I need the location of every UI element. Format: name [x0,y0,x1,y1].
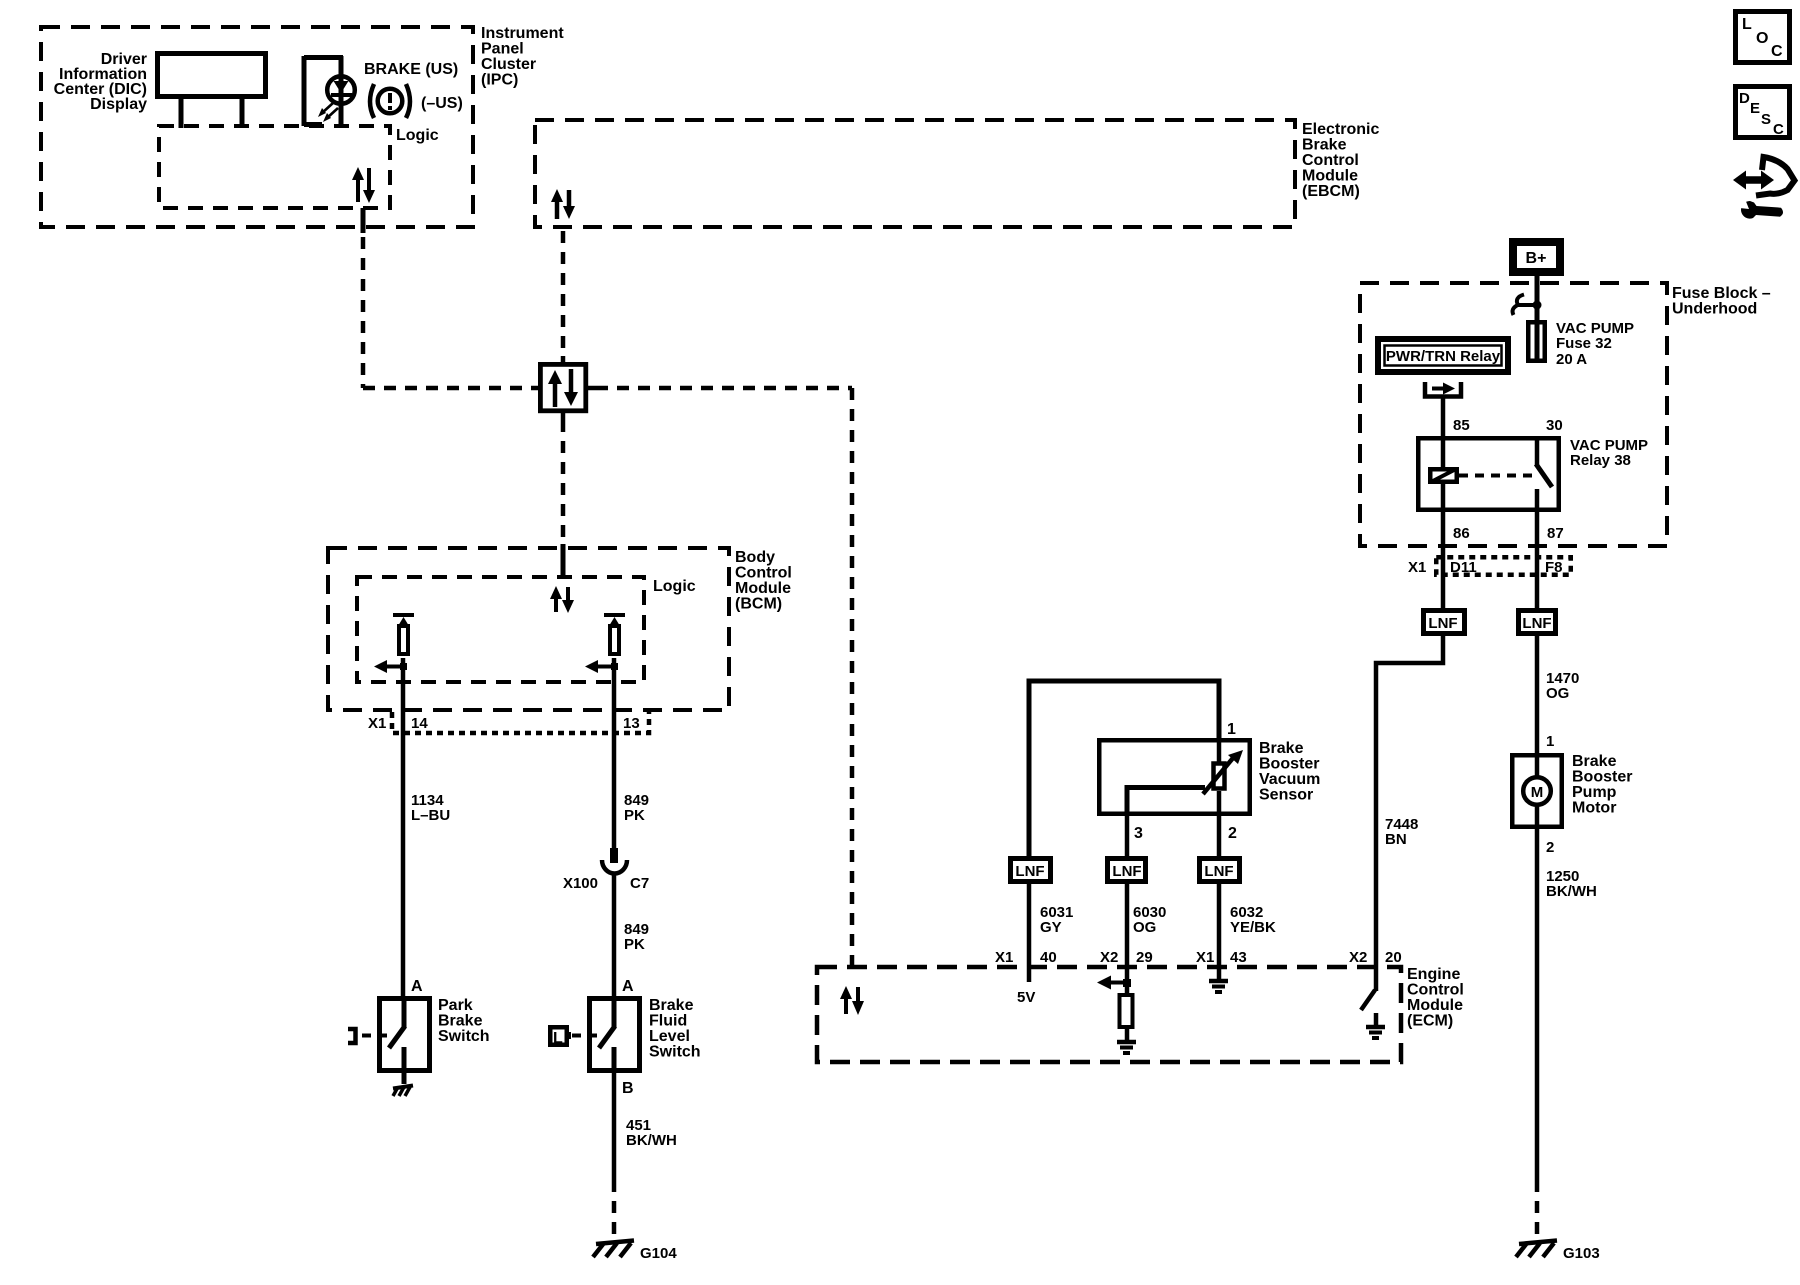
svg-text:S: S [1761,111,1771,128]
svg-text:Park: Park [438,997,473,1014]
module box: Instrument Panel Cluster (IPC) [41,25,564,227]
svg-text:20: 20 [1385,949,1402,966]
svg-text:Electronic: Electronic [1302,121,1379,138]
svg-text:G104: G104 [640,1245,677,1262]
wire: dashed ground lead to G104 [612,1180,617,1241]
svg-text:X2: X2 [1100,949,1118,966]
svg-text:PK: PK [624,807,645,824]
park brake switch S1 [377,978,490,1084]
svg-text:G103: G103 [1563,1245,1600,1262]
svg-text:86: 86 [1453,525,1470,542]
svg-text:Booster: Booster [1259,756,1319,773]
svg-text:YE/BK: YE/BK [1230,919,1276,936]
wire: pin 87 to connector [1535,512,1540,608]
wire label 1134 L-BU [411,792,450,824]
wire: 7448 BN to ECM pin 20 [1376,636,1443,967]
svg-text:1: 1 [1227,721,1236,738]
wire label 1470 OG [1546,670,1579,702]
splice junction: serial data link box [531,356,596,420]
actuator dashed link (park brake) [362,1034,374,1038]
svg-text:OG: OG [1133,919,1156,936]
svg-text:B+: B+ [1526,250,1547,267]
svg-text:Relay 38: Relay 38 [1570,452,1631,469]
wire: coil feed to pin 85 [1441,396,1446,436]
svg-text:29: 29 [1136,949,1153,966]
svg-text:Brake: Brake [1302,137,1347,154]
logic box inside IPC [159,126,439,208]
svg-text:OG: OG [1546,685,1569,702]
svg-text:E: E [1750,100,1760,117]
wire: DIC display right leg [240,99,245,128]
svg-text:A: A [622,978,634,995]
svg-text:Fuse 32: Fuse 32 [1556,335,1612,352]
svg-text:X100: X100 [563,875,598,892]
svg-text:LNF: LNF [1112,863,1141,880]
wire: dashed ground lead to G103 [1535,1180,1540,1241]
relay coil feed bracket [1425,382,1461,397]
svg-text:Pump: Pump [1572,784,1617,801]
svg-text:Module: Module [1407,997,1463,1014]
svg-text:3: 3 [1134,825,1143,842]
relay name box: PWR/TRN Relay [1378,339,1508,372]
svg-text:Cluster: Cluster [481,56,536,73]
svg-text:BK/WH: BK/WH [626,1132,677,1149]
brake warning indicator symbol ((!)) [370,84,410,118]
svg-text:C: C [1771,43,1783,60]
svg-text:43: 43 [1230,949,1247,966]
svg-text:X1: X1 [1408,559,1426,576]
5V source label in ECM [1017,967,1035,1006]
splice pack LNF (6032) [1200,859,1240,882]
svg-text:C: C [1773,121,1784,138]
svg-text:M: M [1531,784,1544,801]
wire: 1250 BK/WH to ground [1535,829,1540,1180]
svg-text:D: D [1739,90,1750,107]
ground G104 [593,1241,677,1263]
svg-text:2: 2 [1546,839,1554,856]
wire label 1250 BK/WH [1546,868,1597,900]
svg-text:LNF: LNF [1522,615,1551,632]
BCM driver output right (pull-up to fluid level input) [604,615,625,682]
fuse F32: VAC PUMP Fuse 32 20A [1528,320,1634,368]
fluid level sensor symbol [L] [550,1027,571,1047]
svg-text:(–US): (–US) [421,95,463,112]
svg-text:GY: GY [1040,919,1062,936]
svg-text:X1: X1 [1196,949,1214,966]
svg-text:2: 2 [1228,825,1237,842]
wire: pin3 to LNF [1125,816,1130,856]
ground G103 [1516,1241,1600,1263]
wire: 6030 OG to ECM [1125,884,1130,967]
svg-text:A: A [411,978,423,995]
svg-text:X1: X1 [368,715,386,732]
svg-text:PK: PK [624,936,645,953]
svg-text:Underhood: Underhood [1672,301,1757,318]
svg-text:F8: F8 [1545,559,1563,576]
svg-text:PWR/TRN Relay: PWR/TRN Relay [1386,348,1501,365]
svg-text:(ECM): (ECM) [1407,1013,1453,1030]
svg-text:(EBCM): (EBCM) [1302,183,1360,200]
svg-text:L: L [1742,16,1752,33]
serial data arrows in ECM [840,986,864,1015]
svg-text:Control: Control [1302,152,1359,169]
wire: pin 86 to connector [1441,512,1446,608]
logic box inside BCM [357,577,696,682]
DIC display U1 [54,51,266,113]
bus bar tap symbol [1513,295,1542,316]
svg-text:D11: D11 [1450,559,1477,576]
svg-text:Brake: Brake [649,997,694,1014]
svg-text:Module: Module [1302,168,1358,185]
wire label 6031 GY [1040,904,1073,936]
svg-text:Engine: Engine [1407,966,1460,983]
svg-text:Vacuum: Vacuum [1259,771,1320,788]
svg-text:Logic: Logic [396,127,439,144]
svg-text:20 A: 20 A [1556,351,1587,368]
wire: IPC serial data stub [361,208,366,233]
svg-text:Display: Display [90,96,147,113]
signal arrow right (fluid level input) [585,660,618,673]
corner icon: diagnostic arrow and wrench [1733,157,1795,219]
battery feed B+ [1513,242,1560,272]
signal arrow left (park brake input) [374,660,407,673]
svg-text:BN: BN [1385,831,1407,848]
svg-text:Logic: Logic [653,578,696,595]
svg-text:LNF: LNF [1015,863,1044,880]
svg-text:Brake: Brake [438,1013,483,1030]
svg-text:(IPC): (IPC) [481,72,518,89]
serial data arrows in EBCM [551,189,575,219]
wire: serial data down to BCM (dashed) [561,420,566,540]
inline connector X100 C7 [563,848,649,892]
wire: serial data from IPC (dashed) [361,237,366,388]
svg-text:40: 40 [1040,949,1057,966]
wire: 849 PK below X100 [612,875,617,996]
wire: serial data solid stub into BCM [561,544,566,578]
module box: Fuse Block - Underhood [1360,283,1771,546]
svg-text:C7: C7 [630,875,649,892]
wire label 849 PK (upper) [624,792,649,824]
wire: 6032 YE/BK to ECM [1217,884,1222,967]
brake booster pump motor M1 [1512,753,1632,829]
connector X1 of BCM [368,712,649,733]
svg-text:Switch: Switch [438,1028,490,1045]
ECM pin 29 input: arrow, resistor, ground [1097,967,1136,1053]
wire: serial data horizontal left segment (dashed) [363,386,531,391]
module box: Electronic Brake Control Module (EBCM) [535,120,1379,227]
brake booster vacuum sensor B1 [1099,738,1320,816]
svg-text:Module: Module [735,580,791,597]
svg-text:Motor: Motor [1572,800,1616,817]
wire label 7448 BN [1385,816,1418,848]
module box: Body Control Module (BCM) [328,548,792,710]
svg-text:Booster: Booster [1572,769,1632,786]
wire label 6032 YE/BK [1230,904,1276,936]
svg-text:Level: Level [649,1028,690,1045]
relay K38: VAC PUMP Relay 38 [1418,436,1648,512]
svg-text:Control: Control [735,565,792,582]
svg-text:30: 30 [1546,417,1563,434]
wire: 5V reference rail [1029,681,1219,856]
wire: serial data from EBCM (dashed) [561,231,566,356]
svg-text:X1: X1 [995,949,1013,966]
svg-text:1: 1 [1546,733,1554,750]
splice pack LNF (6031) [1011,859,1051,882]
brake fluid level switch S2 [587,978,701,1073]
indicator lamp: BRAKE (US) LED [304,56,355,126]
mechanical bracket symbol [348,1029,356,1043]
svg-text:Fuse Block –: Fuse Block – [1672,285,1771,302]
wire: serial data horizontal right segment (dashed) [596,386,852,391]
svg-text:LNF: LNF [1204,863,1233,880]
serial data arrows in BCM logic [550,586,574,613]
svg-text:Brake: Brake [1259,740,1304,757]
wire: B+ to fuse [1535,272,1540,320]
ECM pin labels [995,949,1402,966]
corner icon: LOC box [1736,12,1790,63]
svg-text:Control: Control [1407,982,1464,999]
svg-text:BRAKE (US): BRAKE (US) [364,61,458,78]
chassis ground (park brake switch) [393,1086,413,1097]
wire: DIC display left leg [179,99,184,128]
wire: serial data down to ECM (dashed) [850,388,855,967]
svg-text:X2: X2 [1349,949,1367,966]
svg-text:Fluid: Fluid [649,1013,687,1030]
svg-text:5V: 5V [1017,989,1035,1006]
svg-text:13: 13 [623,715,640,732]
wire: BCM pin 13 down to X100 [612,682,617,848]
actuator dashed link (fluid level) [572,1034,584,1038]
splice pack LNF (7448) [1424,611,1465,634]
BCM driver output left (pull-up to park brake input) [393,615,414,682]
corner icon: DESC box [1736,87,1790,139]
module box: Engine Control Module (ECM) [817,966,1464,1062]
svg-text:L–BU: L–BU [411,807,450,824]
svg-text:85: 85 [1453,417,1470,434]
splice pack LNF (1470) [1519,611,1556,634]
svg-text:O: O [1756,30,1768,47]
wire label 451 BK/WH [626,1117,677,1149]
wire: 451 BK/WH from fluid switch [612,1073,617,1180]
svg-text:LNF: LNF [1428,615,1457,632]
svg-text:Body: Body [735,549,775,566]
svg-text:14: 14 [411,715,428,732]
svg-text:Panel: Panel [481,41,524,58]
wire: BCM pin 14 through connector [401,682,406,996]
wire: pin2 to LNF [1217,816,1222,856]
svg-text:L: L [553,1030,563,1047]
serial data arrows in IPC logic [352,167,375,203]
svg-text:(BCM): (BCM) [735,596,782,613]
svg-text:Sensor: Sensor [1259,787,1313,804]
wire: 1470 OG to pump motor [1535,636,1540,753]
wire label 849 PK (lower) [624,921,649,953]
connector X1 of fuse block [1408,557,1571,576]
ECM pin 20 low-side driver switch [1361,967,1385,1038]
wire: 6031 GY to ECM [1027,884,1032,967]
svg-text:87: 87 [1547,525,1564,542]
ECM pin 43 ground [1209,967,1228,992]
svg-text:BK/WH: BK/WH [1546,883,1597,900]
svg-text:Instrument: Instrument [481,25,564,42]
svg-text:Brake: Brake [1572,753,1617,770]
svg-text:B: B [622,1080,634,1097]
svg-text:Switch: Switch [649,1044,701,1061]
wire label 6030 OG [1133,904,1166,936]
splice pack LNF (6030) [1108,859,1146,882]
